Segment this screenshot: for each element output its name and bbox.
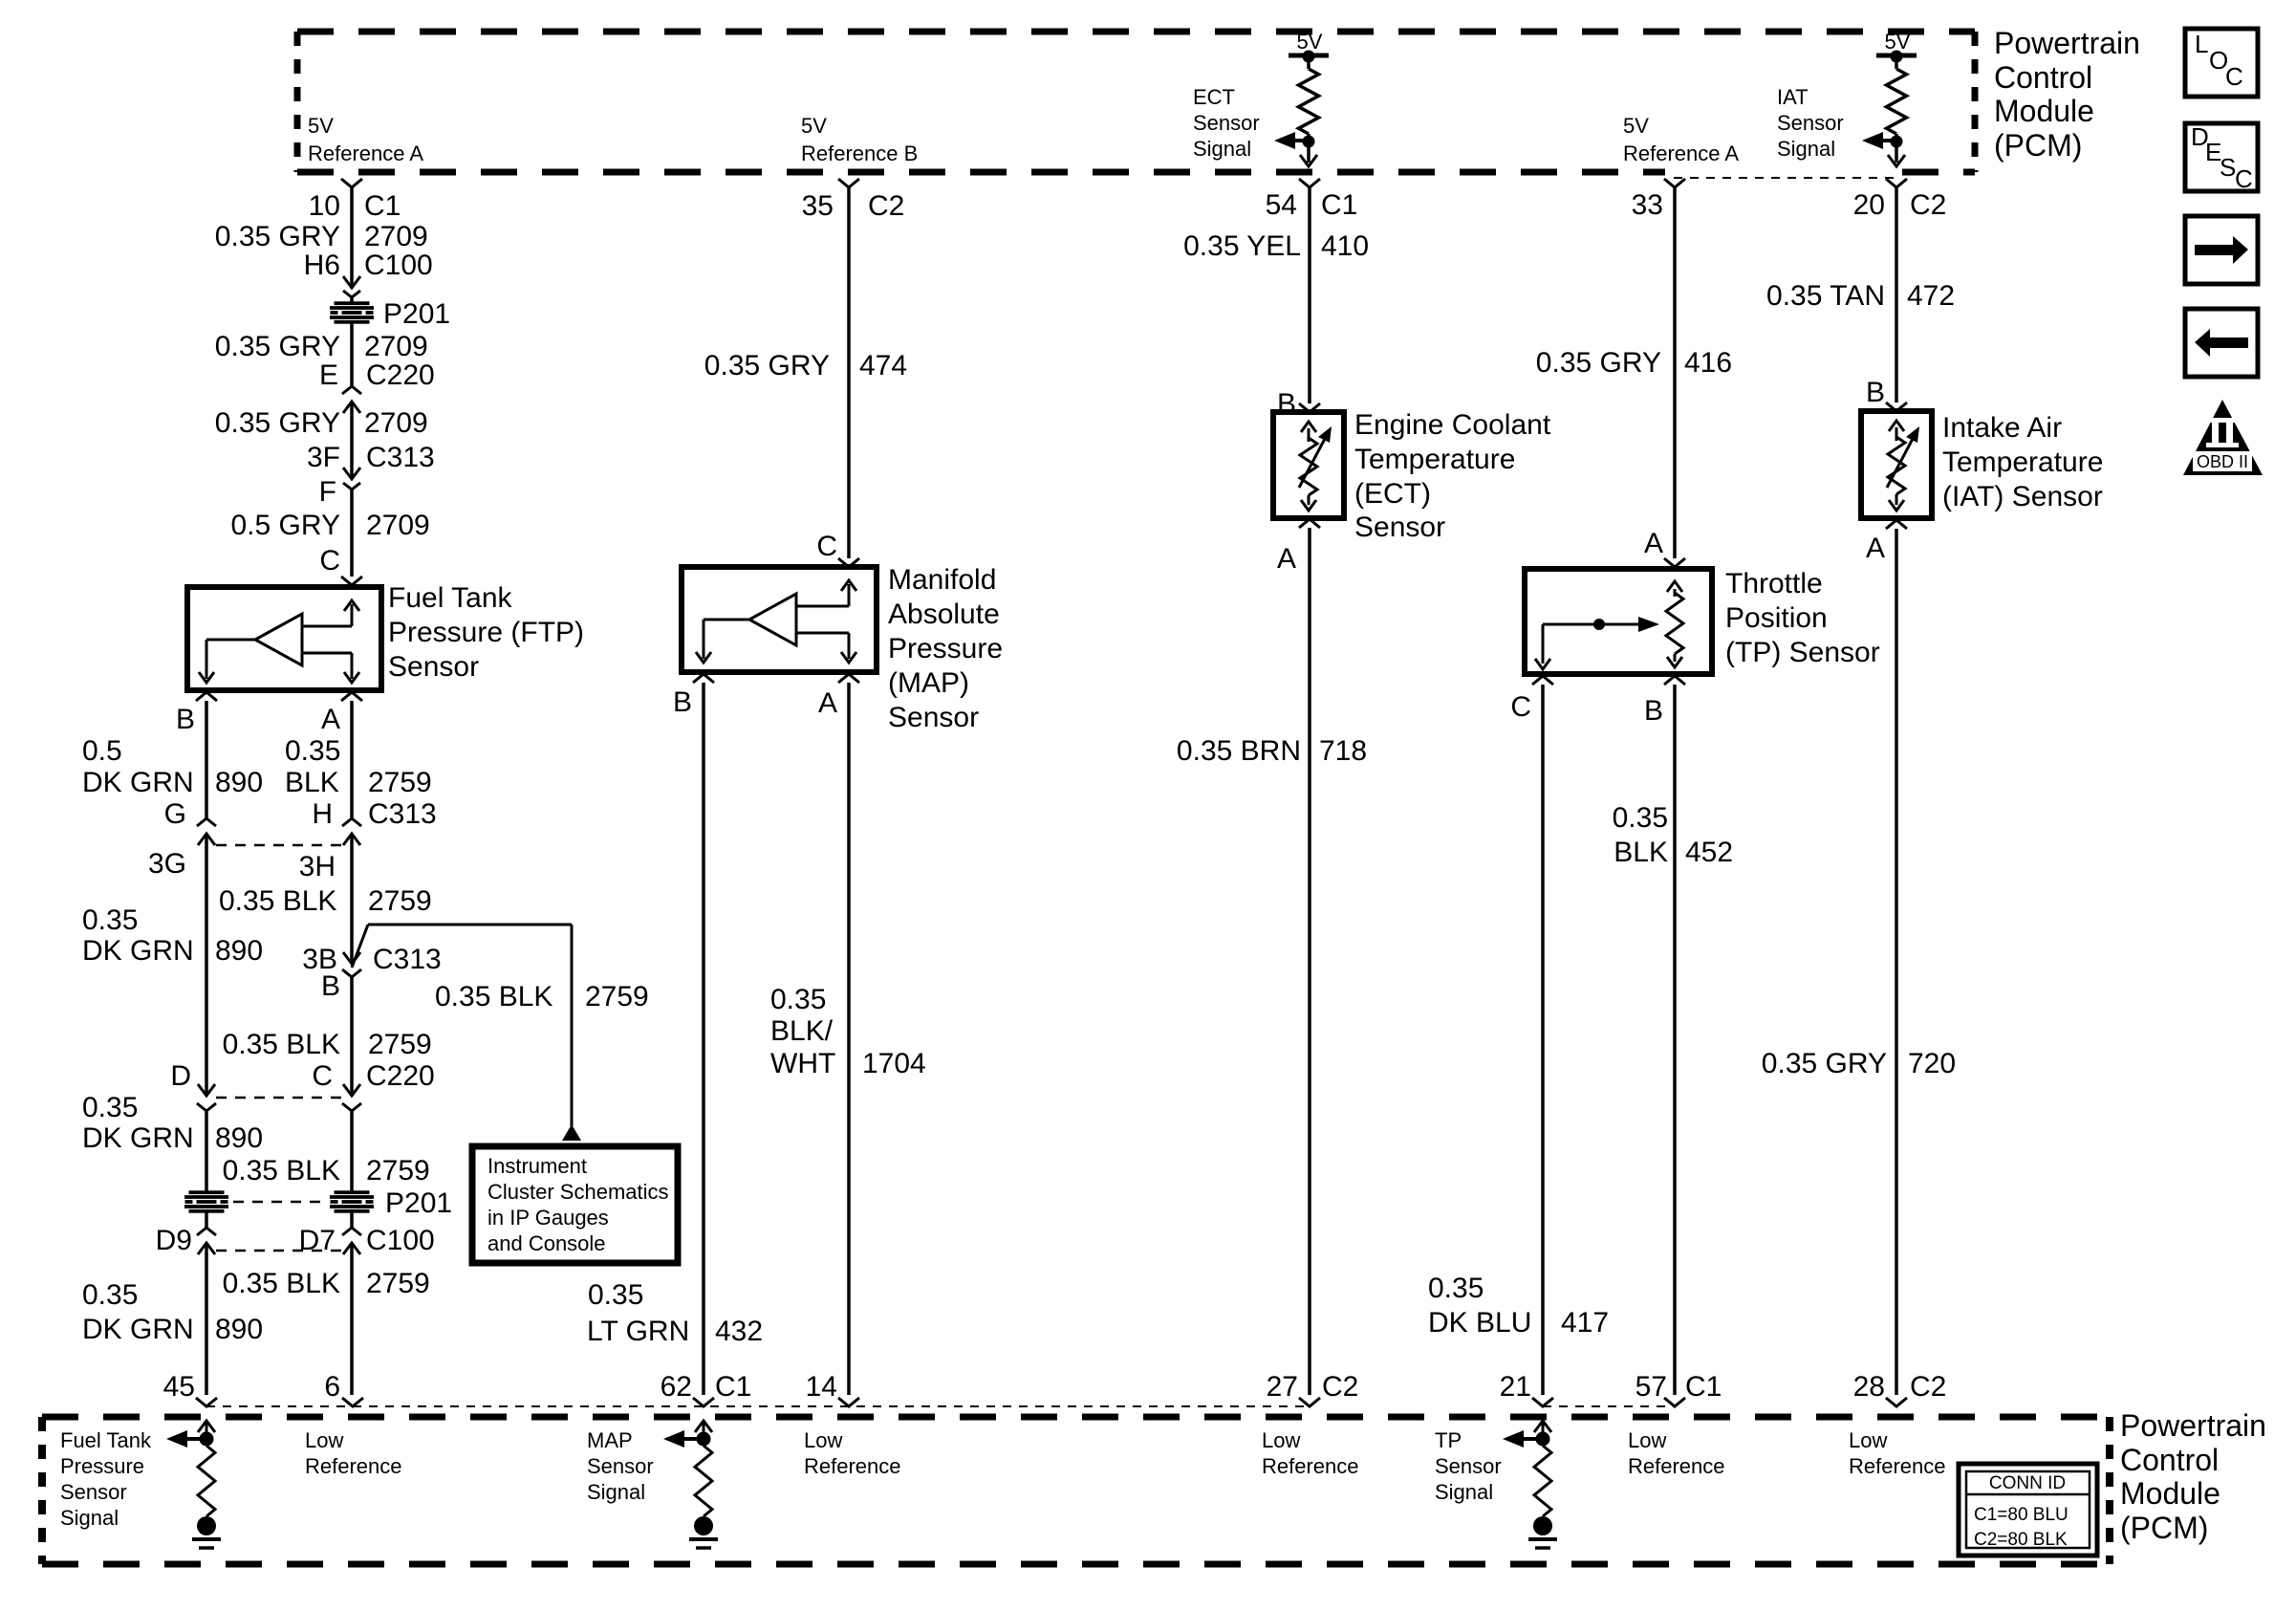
svg-text:2709: 2709 bbox=[364, 221, 428, 252]
svg-text:Pressure: Pressure bbox=[60, 1454, 144, 1478]
svg-text:0.35 GRY: 0.35 GRY bbox=[704, 350, 830, 381]
svg-text:A: A bbox=[1866, 533, 1885, 564]
svg-text:2759: 2759 bbox=[368, 1029, 432, 1060]
svg-text:C1: C1 bbox=[364, 190, 401, 222]
svg-text:2759: 2759 bbox=[366, 1268, 430, 1299]
svg-text:Sensor: Sensor bbox=[888, 702, 979, 733]
svg-text:B: B bbox=[176, 704, 195, 735]
TP Sensor Signal pin 21 (resistor + ground) bbox=[1534, 1421, 1551, 1432]
svg-text:62: 62 bbox=[661, 1371, 692, 1403]
svg-text:C: C bbox=[816, 531, 837, 562]
svg-text:Reference A: Reference A bbox=[308, 142, 423, 165]
ECT thermistor symbol bbox=[1308, 428, 1310, 442]
svg-text:(MAP): (MAP) bbox=[888, 667, 969, 699]
svg-text:890: 890 bbox=[215, 1122, 263, 1154]
svg-text:452: 452 bbox=[1685, 837, 1733, 868]
svg-text:Intake Air: Intake Air bbox=[1942, 412, 2062, 444]
svg-text:Sensor: Sensor bbox=[1354, 512, 1445, 543]
svg-text:Sensor: Sensor bbox=[1435, 1454, 1502, 1478]
svg-text:410: 410 bbox=[1321, 230, 1369, 262]
connector C100 crossing (arrow + chevron) bbox=[343, 276, 360, 288]
svg-text:C313: C313 bbox=[366, 442, 435, 473]
svg-text:0.5 GRY: 0.5 GRY bbox=[230, 510, 340, 541]
wire 2759 BLK tap to instrument cluster bbox=[352, 925, 368, 968]
svg-text:(PCM): (PCM) bbox=[1994, 128, 2082, 163]
svg-text:Throttle: Throttle bbox=[1725, 568, 1823, 599]
ECT pin A chevron bbox=[1299, 519, 1320, 528]
svg-text:A: A bbox=[1277, 543, 1296, 575]
svg-text:A: A bbox=[321, 704, 340, 735]
svg-text:IAT: IAT bbox=[1777, 85, 1809, 109]
svg-text:C: C bbox=[2235, 164, 2253, 193]
svg-text:0.35 GRY: 0.35 GRY bbox=[215, 331, 340, 362]
connector C313 crossing (arrow + chevron) bbox=[343, 468, 360, 479]
svg-text:D9: D9 bbox=[156, 1225, 192, 1256]
svg-text:ECT: ECT bbox=[1193, 85, 1235, 109]
svg-text:and Console: and Console bbox=[487, 1231, 606, 1255]
svg-text:Module: Module bbox=[1994, 94, 2094, 128]
connector C100 crossing on B wire (chevron + arrow up) bbox=[197, 1228, 216, 1235]
svg-text:Powertrain: Powertrain bbox=[2120, 1408, 2266, 1443]
svg-text:Engine Coolant: Engine Coolant bbox=[1354, 409, 1551, 441]
svg-text:C2: C2 bbox=[868, 190, 904, 222]
svg-text:C1=80 BLU: C1=80 BLU bbox=[1974, 1505, 2069, 1525]
svg-text:Temperature: Temperature bbox=[1354, 444, 1515, 475]
svg-text:Reference A: Reference A bbox=[1623, 142, 1739, 165]
MAP pin A chevron bbox=[838, 674, 859, 683]
icon DESC box bbox=[2185, 123, 2258, 191]
svg-text:0.5: 0.5 bbox=[82, 735, 122, 767]
svg-text:Fuel Tank: Fuel Tank bbox=[388, 582, 513, 614]
TP potentiometer symbol bbox=[1674, 589, 1677, 597]
svg-text:0.35 BRN: 0.35 BRN bbox=[1177, 735, 1301, 767]
svg-text:G: G bbox=[164, 798, 186, 830]
svg-text:B: B bbox=[1866, 377, 1885, 408]
svg-text:(TP) Sensor: (TP) Sensor bbox=[1725, 637, 1880, 668]
svg-text:3H: 3H bbox=[299, 851, 336, 882]
off-page arrow to instrument cluster bbox=[562, 1124, 581, 1141]
svg-text:Fuel Tank: Fuel Tank bbox=[60, 1428, 152, 1452]
svg-text:27: 27 bbox=[1267, 1371, 1298, 1403]
icon left-arrow box bbox=[2185, 309, 2258, 377]
svg-text:0.35 GRY: 0.35 GRY bbox=[215, 221, 340, 252]
svg-text:10: 10 bbox=[309, 190, 340, 222]
svg-text:C313: C313 bbox=[373, 944, 442, 975]
svg-text:54: 54 bbox=[1266, 189, 1297, 221]
svg-text:0.35 BLK: 0.35 BLK bbox=[223, 1155, 340, 1186]
svg-text:0.35: 0.35 bbox=[82, 904, 138, 936]
connector C220 crossing on A wire (arrow + chevron) bbox=[343, 1084, 360, 1096]
svg-text:Sensor: Sensor bbox=[1777, 111, 1844, 135]
svg-text:CONN ID: CONN ID bbox=[1989, 1473, 2066, 1493]
svg-text:Signal: Signal bbox=[587, 1480, 645, 1504]
svg-text:417: 417 bbox=[1561, 1307, 1609, 1339]
icon OBD II triangle bbox=[2183, 400, 2263, 475]
svg-text:Reference: Reference bbox=[804, 1454, 901, 1478]
svg-text:Low: Low bbox=[1628, 1428, 1666, 1452]
pin 10 C1 connector chevron bbox=[341, 179, 362, 187]
svg-text:472: 472 bbox=[1907, 280, 1955, 312]
PCM bottom box (dashed outline) bbox=[42, 1414, 2110, 1421]
wire 2709 GRY segment C313 to FTP bbox=[350, 490, 354, 577]
wire 2759 BLK FTP A down bbox=[350, 701, 354, 818]
svg-text:2709: 2709 bbox=[364, 331, 428, 362]
dashed connector line P201 bbox=[233, 1201, 325, 1204]
svg-text:C2: C2 bbox=[1322, 1371, 1358, 1403]
svg-text:28: 28 bbox=[1853, 1371, 1885, 1403]
svg-text:BLK: BLK bbox=[1614, 837, 1668, 868]
MAP pin B chevron bbox=[693, 674, 714, 683]
svg-text:Position: Position bbox=[1725, 602, 1828, 634]
wire 1704 BLK/WHT MAP A to pin14 bbox=[847, 683, 851, 1395]
TP pin B chevron bbox=[1664, 676, 1685, 685]
svg-text:D: D bbox=[170, 1060, 191, 1092]
svg-text:C: C bbox=[1510, 691, 1531, 723]
thin dashed PCM edge (bottom right run) bbox=[1543, 1405, 1675, 1407]
svg-text:2709: 2709 bbox=[366, 510, 430, 541]
svg-text:0.35: 0.35 bbox=[1613, 802, 1668, 834]
svg-text:5V: 5V bbox=[1297, 30, 1323, 54]
svg-text:(PCM): (PCM) bbox=[2120, 1511, 2208, 1545]
svg-text:Control: Control bbox=[1994, 60, 2092, 95]
svg-text:BLK/: BLK/ bbox=[770, 1015, 834, 1047]
svg-text:C100: C100 bbox=[366, 1225, 435, 1256]
connector C313 crossing on A wire (arrow + chevron) bbox=[343, 952, 360, 964]
svg-text:2759: 2759 bbox=[368, 767, 432, 798]
svg-text:416: 416 bbox=[1684, 347, 1732, 379]
svg-text:LT GRN: LT GRN bbox=[587, 1316, 689, 1347]
svg-text:890: 890 bbox=[215, 935, 263, 967]
svg-text:TP: TP bbox=[1435, 1428, 1462, 1452]
svg-text:Powertrain: Powertrain bbox=[1994, 26, 2140, 60]
svg-text:MAP: MAP bbox=[587, 1428, 633, 1452]
CONN ID table bbox=[1959, 1464, 2097, 1556]
svg-text:Sensor: Sensor bbox=[388, 651, 479, 683]
svg-text:5V: 5V bbox=[308, 114, 334, 138]
svg-text:B: B bbox=[1277, 388, 1296, 420]
svg-text:0.35 GRY: 0.35 GRY bbox=[1762, 1048, 1887, 1079]
connector C313 crossing on A wire (chevron + arrow up) bbox=[342, 818, 361, 826]
svg-text:0.35 GRY: 0.35 GRY bbox=[215, 407, 340, 439]
svg-text:S: S bbox=[2220, 153, 2236, 182]
svg-text:Pressure: Pressure bbox=[888, 633, 1003, 664]
svg-text:F: F bbox=[319, 476, 336, 508]
TP sensor box bbox=[1525, 569, 1712, 674]
svg-text:Signal: Signal bbox=[1193, 137, 1251, 161]
svg-text:C2=80 BLK: C2=80 BLK bbox=[1974, 1530, 2068, 1550]
svg-text:P201: P201 bbox=[385, 1187, 452, 1219]
svg-text:0.35 GRY: 0.35 GRY bbox=[1536, 347, 1661, 379]
svg-text:C2: C2 bbox=[1910, 1371, 1946, 1403]
svg-text:474: 474 bbox=[859, 350, 907, 381]
svg-text:Sensor: Sensor bbox=[60, 1480, 127, 1504]
svg-text:45: 45 bbox=[163, 1371, 195, 1403]
svg-text:Low: Low bbox=[305, 1428, 343, 1452]
svg-text:DK BLU: DK BLU bbox=[1428, 1307, 1531, 1339]
wire 432 LT GRN MAP B to pin62 bbox=[702, 683, 705, 1395]
FTP sensor box bbox=[187, 587, 381, 690]
svg-text:WHT: WHT bbox=[770, 1048, 835, 1079]
svg-text:3F: 3F bbox=[307, 442, 340, 473]
svg-text:Manifold: Manifold bbox=[888, 564, 996, 596]
svg-text:0.35: 0.35 bbox=[285, 735, 340, 767]
svg-text:Signal: Signal bbox=[1435, 1480, 1493, 1504]
IAT pin A chevron bbox=[1886, 520, 1907, 529]
wire 720 GRY IAT A to pin28 bbox=[1895, 529, 1898, 1395]
wire 410 YEL pin54 to ECT B bbox=[1299, 179, 1320, 187]
svg-text:0.35: 0.35 bbox=[82, 1279, 138, 1311]
thin dashed PCM edge between pins 33 and 20 bbox=[1674, 177, 1896, 179]
MAP sensor amplifier symbol bbox=[749, 594, 796, 645]
svg-text:Temperature: Temperature bbox=[1942, 446, 2103, 478]
svg-text:Pressure (FTP): Pressure (FTP) bbox=[388, 617, 584, 648]
IAT thermistor symbol bbox=[1895, 427, 1898, 441]
svg-text:35: 35 bbox=[802, 190, 834, 222]
svg-text:432: 432 bbox=[715, 1316, 763, 1347]
wire 718 BRN ECT A to pin27 bbox=[1308, 528, 1311, 1395]
instrument cluster callout box bbox=[472, 1146, 678, 1263]
svg-text:Module: Module bbox=[2120, 1476, 2220, 1511]
inline connector P201 on B wire bbox=[189, 1190, 225, 1194]
svg-text:C1: C1 bbox=[1685, 1371, 1722, 1403]
svg-text:0.35: 0.35 bbox=[588, 1279, 643, 1311]
svg-text:3G: 3G bbox=[148, 848, 186, 880]
thin dashed PCM edge (bottom left run) bbox=[206, 1405, 1310, 1407]
MAP Sensor Signal pin 62 (resistor + ground) bbox=[695, 1421, 712, 1432]
wire 2709 GRY segment C220 to C313 bbox=[350, 402, 354, 479]
svg-text:Low: Low bbox=[1262, 1428, 1300, 1452]
svg-text:B: B bbox=[673, 686, 692, 718]
svg-text:Reference: Reference bbox=[305, 1454, 402, 1478]
svg-text:Sensor: Sensor bbox=[1193, 111, 1260, 135]
svg-text:L: L bbox=[2195, 30, 2208, 58]
svg-text:OBD II: OBD II bbox=[2197, 452, 2248, 471]
inline connector P201 (upper) bbox=[335, 301, 370, 305]
svg-text:Reference: Reference bbox=[1849, 1454, 1946, 1478]
svg-text:20: 20 bbox=[1853, 189, 1885, 221]
wire 890 DK GRN FTP B down bbox=[205, 701, 208, 818]
svg-text:DK GRN: DK GRN bbox=[82, 1122, 194, 1154]
svg-text:BLK: BLK bbox=[285, 767, 339, 798]
svg-text:2759: 2759 bbox=[585, 981, 649, 1012]
dashed connector line C100 bbox=[216, 1250, 342, 1252]
dashed connector line C220 bbox=[216, 1097, 342, 1099]
inline connector P201 on A wire bbox=[335, 1190, 370, 1194]
svg-text:6: 6 bbox=[324, 1371, 340, 1403]
wire 416 GRY pin33 to TP A bbox=[1664, 179, 1685, 187]
svg-text:2759: 2759 bbox=[366, 1155, 430, 1186]
FTP Sensor Signal pin 45 (resistor + ground) bbox=[198, 1421, 215, 1432]
svg-text:Low: Low bbox=[1849, 1428, 1887, 1452]
svg-text:C: C bbox=[2225, 62, 2243, 91]
FTP pin B chevron bbox=[196, 692, 217, 701]
svg-text:0.35 BLK: 0.35 BLK bbox=[435, 981, 552, 1012]
svg-text:890: 890 bbox=[215, 1314, 263, 1345]
svg-text:Signal: Signal bbox=[1777, 137, 1835, 161]
FTP pin A chevron bbox=[341, 692, 362, 701]
wire 417 DK BLU TP C to pin21 bbox=[1541, 685, 1545, 1395]
svg-text:DK GRN: DK GRN bbox=[82, 1314, 194, 1345]
svg-text:H6: H6 bbox=[304, 250, 340, 281]
svg-text:0.35 BLK: 0.35 BLK bbox=[223, 1029, 340, 1060]
svg-text:B: B bbox=[1644, 695, 1663, 727]
svg-text:A: A bbox=[818, 687, 837, 719]
svg-text:Sensor: Sensor bbox=[587, 1454, 654, 1478]
svg-text:57: 57 bbox=[1635, 1371, 1667, 1403]
svg-text:H: H bbox=[312, 798, 333, 830]
wire 472 TAN pin20 to IAT B bbox=[1886, 179, 1907, 187]
svg-text:C313: C313 bbox=[368, 798, 437, 830]
svg-text:Low: Low bbox=[804, 1428, 842, 1452]
svg-text:33: 33 bbox=[1632, 189, 1663, 221]
wire 2709 GRY segment P201 to C220 bbox=[350, 323, 354, 386]
svg-text:C: C bbox=[312, 1060, 333, 1092]
svg-text:DK GRN: DK GRN bbox=[82, 935, 194, 967]
svg-text:0.35 YEL: 0.35 YEL bbox=[1183, 230, 1301, 262]
svg-text:Cluster Schematics: Cluster Schematics bbox=[487, 1180, 669, 1204]
svg-text:0.35: 0.35 bbox=[1428, 1273, 1484, 1304]
svg-text:C220: C220 bbox=[366, 1060, 435, 1092]
svg-text:5V: 5V bbox=[801, 114, 827, 138]
svg-text:5V: 5V bbox=[1885, 30, 1911, 54]
svg-text:B: B bbox=[321, 970, 340, 1002]
svg-text:C100: C100 bbox=[364, 250, 433, 281]
wire 474 GRY pin35 to MAP C bbox=[838, 179, 859, 187]
svg-text:Reference: Reference bbox=[1262, 1454, 1359, 1478]
svg-text:C2: C2 bbox=[1910, 189, 1946, 221]
svg-text:21: 21 bbox=[1500, 1371, 1531, 1403]
svg-text:Instrument: Instrument bbox=[487, 1154, 587, 1178]
svg-text:718: 718 bbox=[1319, 735, 1367, 767]
svg-text:14: 14 bbox=[806, 1371, 837, 1403]
IAT sensor box bbox=[1861, 411, 1932, 518]
svg-text:C: C bbox=[319, 545, 340, 577]
wire 2709 GRY segment pin10 to C100 bbox=[350, 187, 354, 288]
svg-text:0.35 TAN: 0.35 TAN bbox=[1766, 280, 1885, 312]
svg-text:1704: 1704 bbox=[862, 1048, 926, 1079]
svg-text:0.35: 0.35 bbox=[82, 1092, 138, 1123]
svg-text:5V: 5V bbox=[1623, 114, 1649, 138]
svg-text:DK GRN: DK GRN bbox=[82, 767, 194, 798]
svg-text:Control: Control bbox=[2120, 1443, 2219, 1477]
svg-text:C1: C1 bbox=[1321, 189, 1357, 221]
svg-text:2709: 2709 bbox=[364, 407, 428, 439]
connector C100 crossing on A wire (chevron + arrow up) bbox=[342, 1228, 361, 1235]
svg-text:2759: 2759 bbox=[368, 885, 432, 917]
connector C220 crossing (chevron + arrow up) bbox=[342, 386, 361, 394]
TP pin C chevron bbox=[1532, 676, 1553, 685]
svg-text:C220: C220 bbox=[366, 359, 435, 391]
svg-text:A: A bbox=[1644, 528, 1663, 559]
wire 452 BLK TP B to pin57 bbox=[1673, 685, 1677, 1395]
icon right-arrow box bbox=[2185, 216, 2258, 284]
svg-text:Signal: Signal bbox=[60, 1506, 119, 1530]
ECT sensor box bbox=[1273, 412, 1344, 518]
svg-text:E: E bbox=[319, 359, 338, 391]
svg-text:(IAT) Sensor: (IAT) Sensor bbox=[1942, 481, 2103, 512]
connector C313 crossing on B wire (chevron + arrow up) bbox=[197, 818, 216, 826]
icon LOC box bbox=[2185, 29, 2258, 97]
svg-text:Reference: Reference bbox=[1628, 1454, 1725, 1478]
PCM top box (dashed outline) bbox=[297, 29, 1975, 35]
connector C220 crossing on B wire (arrow + chevron) bbox=[198, 1084, 215, 1096]
svg-text:0.35 BLK: 0.35 BLK bbox=[223, 1268, 340, 1299]
svg-text:720: 720 bbox=[1908, 1048, 1956, 1079]
svg-text:Reference B: Reference B bbox=[801, 142, 918, 165]
FTP pin C chevron bbox=[341, 577, 362, 585]
FTP sensor amplifier symbol bbox=[255, 614, 302, 665]
dashed connector line C313 bbox=[216, 844, 342, 847]
svg-text:P201: P201 bbox=[383, 298, 450, 330]
svg-text:0.35 BLK: 0.35 BLK bbox=[219, 885, 336, 917]
svg-text:(ECT): (ECT) bbox=[1354, 478, 1431, 510]
svg-text:Absolute: Absolute bbox=[888, 599, 1000, 630]
svg-text:890: 890 bbox=[215, 767, 263, 798]
pin chevrons at PCM bottom row bbox=[196, 1398, 217, 1406]
MAP sensor box bbox=[682, 567, 877, 672]
svg-text:0.35: 0.35 bbox=[770, 984, 826, 1015]
svg-text:in IP Gauges: in IP Gauges bbox=[487, 1206, 609, 1230]
svg-text:C1: C1 bbox=[715, 1371, 751, 1403]
